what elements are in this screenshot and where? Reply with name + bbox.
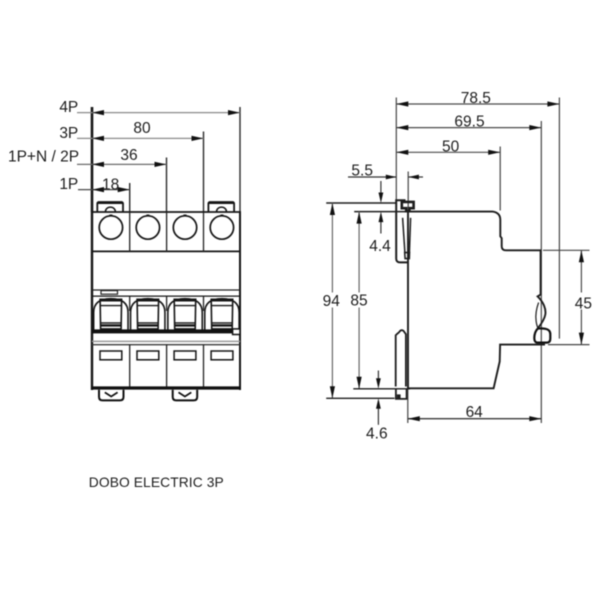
body outline bbox=[91, 212, 93, 390]
svg-text:18: 18 bbox=[102, 176, 119, 193]
toggle handles bbox=[100, 299, 233, 329]
handle arcs + toggles bbox=[94, 299, 240, 330]
svg-text:DOBO ELECTRIC 3P: DOBO ELECTRIC 3P bbox=[89, 475, 224, 490]
dimension 1P line bbox=[78, 189, 130, 191]
dimension 2P line bbox=[77, 163, 167, 165]
dark band bbox=[92, 329, 233, 333]
extension line body left face up bbox=[407, 172, 409, 213]
extension line 3P bbox=[203, 132, 205, 213]
svg-text:85: 85 bbox=[350, 293, 367, 310]
svg-text:64: 64 bbox=[466, 404, 484, 421]
dimension 4P line bbox=[77, 112, 240, 114]
SIDE VIEW BODY bbox=[396, 200, 551, 399]
pole dividers lower bbox=[130, 345, 204, 387]
latch slot inner line bbox=[536, 303, 539, 328]
ext line 94 bottom bbox=[326, 397, 394, 399]
clip foot bbox=[396, 389, 407, 399]
dimension 85 vertical bbox=[358, 212, 360, 293]
svg-text:78.5: 78.5 bbox=[461, 90, 491, 107]
top clip pole4 bbox=[208, 202, 234, 212]
dimension 45 vertical bbox=[580, 250, 582, 292]
svg-text:50: 50 bbox=[442, 138, 460, 155]
ext line 85 top bbox=[354, 211, 408, 213]
face dark line bbox=[92, 344, 240, 346]
pole1 arc bbox=[94, 299, 128, 330]
latch hook blob bbox=[534, 328, 550, 342]
svg-text:4.6: 4.6 bbox=[366, 425, 388, 442]
FRONT VIEW DIMENSIONS bbox=[8, 99, 240, 212]
pole4 arc bbox=[205, 299, 239, 330]
top clip pole1 bbox=[97, 202, 123, 212]
band right notch bbox=[233, 329, 240, 335]
dimension 64 bbox=[408, 418, 542, 420]
extension line 1P bbox=[129, 183, 131, 212]
dimension 4.6 arrows bbox=[377, 371, 379, 381]
dimension 3P line bbox=[77, 137, 204, 139]
ext line 45 top bbox=[543, 249, 590, 251]
pole window 1 bbox=[100, 351, 122, 360]
svg-text:4P: 4P bbox=[59, 99, 78, 116]
pole window 3 bbox=[174, 351, 196, 360]
clip top piece bbox=[396, 200, 413, 262]
mid face line bbox=[92, 289, 240, 291]
pole3 arc bbox=[168, 299, 202, 330]
SIDE VIEW DIMENSIONS bbox=[323, 90, 592, 442]
svg-text:5.5: 5.5 bbox=[351, 162, 373, 179]
label window pole1 bbox=[101, 291, 118, 295]
svg-text:94: 94 bbox=[323, 293, 341, 310]
clip spring arm bbox=[403, 218, 405, 253]
dimension 78.5 bbox=[396, 103, 559, 105]
clip head bbox=[402, 202, 414, 211]
toggle handle pole2 bbox=[137, 299, 159, 329]
dimension 4.4 arrows bbox=[380, 181, 382, 194]
clip bottom piece bbox=[396, 330, 407, 399]
toggle handle pole3 bbox=[174, 299, 196, 329]
extension line right edge 4P bbox=[239, 107, 241, 212]
body profile bbox=[408, 212, 545, 389]
dimension 69.5 bbox=[396, 127, 541, 129]
terminal screw circle pole4 bbox=[210, 216, 233, 239]
ext line 85 bottom bbox=[353, 388, 410, 390]
bottom clip pole3 bbox=[173, 390, 198, 401]
handle zone top line bbox=[92, 295, 240, 297]
svg-text:80: 80 bbox=[133, 120, 151, 137]
pole window 2 bbox=[137, 351, 159, 360]
extension line 69.5/64 bbox=[540, 121, 542, 423]
toggle handle pole4 bbox=[211, 299, 233, 329]
dimension 94 vertical bbox=[331, 203, 333, 293]
extension line clip left bbox=[395, 98, 397, 204]
svg-text:4.4: 4.4 bbox=[369, 238, 391, 255]
terminal screw circle pole1 bbox=[99, 216, 122, 239]
bottom clip pole1 bbox=[99, 390, 124, 401]
extension line 50 bbox=[499, 147, 501, 211]
pole2 arc bbox=[131, 299, 165, 330]
dimension 50 bbox=[396, 151, 500, 153]
terminal screw circle pole2 bbox=[136, 216, 159, 239]
terminal zone bottom line bbox=[92, 250, 240, 252]
extension line 64 left bbox=[407, 389, 409, 423]
pole dividers upper bbox=[130, 212, 204, 251]
svg-text:69.5: 69.5 bbox=[454, 113, 484, 130]
FRONT VIEW BODY bbox=[91, 202, 241, 400]
svg-text:1P+N / 2P: 1P+N / 2P bbox=[8, 148, 79, 165]
pole windows bbox=[100, 351, 233, 360]
dimension 5.5 (outside arrows) bbox=[348, 176, 396, 178]
svg-text:1P: 1P bbox=[59, 176, 78, 193]
svg-text:45: 45 bbox=[575, 296, 592, 313]
bottom right face bbox=[407, 345, 545, 389]
screw slot ticks bbox=[109, 214, 223, 216]
face gray line bbox=[92, 340, 240, 342]
extension line 2P bbox=[166, 158, 168, 213]
svg-text:3P: 3P bbox=[59, 125, 78, 142]
ext line 94 top bbox=[326, 202, 396, 204]
terminal screw circle pole3 bbox=[173, 216, 196, 239]
arc divider stubs bbox=[130, 296, 204, 311]
toggle handle pole1 bbox=[100, 299, 122, 329]
ext line 45 bottom bbox=[548, 344, 590, 346]
extension line latch right bbox=[558, 98, 560, 339]
body bottom edge bbox=[91, 386, 241, 389]
pole window 4 bbox=[211, 351, 233, 360]
extension line left edge (thick) bbox=[91, 107, 94, 212]
svg-text:36: 36 bbox=[120, 147, 137, 164]
